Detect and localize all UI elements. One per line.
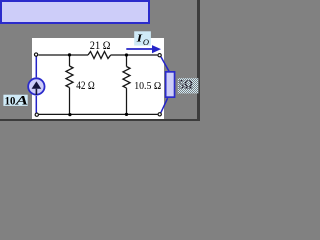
node D bottom-right terminal [158, 113, 161, 116]
node B top-right terminal [158, 54, 161, 57]
wire 10.5ohm branch bottom [126, 88, 128, 114]
junction top of 10.5ohm [125, 53, 128, 56]
svg-text:O: O [143, 37, 149, 47]
resistor R4 5ohm box [166, 72, 175, 97]
wire left branch lower (blue) [35, 96, 37, 113]
label Io highlight box [134, 31, 151, 45]
node A top-left terminal [34, 53, 37, 56]
svg-text:10: 10 [5, 94, 16, 108]
label 5ohm highlight box (dithered) [178, 78, 199, 93]
wire 10.5ohm branch top [126, 55, 128, 67]
wire 42ohm branch bottom [69, 88, 71, 115]
resistor R3 10.5ohm zigzag [123, 67, 130, 89]
wire right diagonal bottom (blue) [161, 98, 168, 113]
svg-text:21 Ω: 21 Ω [90, 38, 111, 52]
svg-text:42 Ω: 42 Ω [76, 80, 94, 92]
junction bottom of 10.5ohm [125, 113, 128, 116]
current Io arrow (blue) [126, 48, 152, 50]
current source arrow [32, 81, 42, 88]
label 5ohm dither overlay [178, 78, 199, 93]
current source I1 10A circle [28, 78, 44, 94]
resistor R2 42ohm zigzag [66, 66, 73, 88]
window shadow border bottom [0, 119, 200, 121]
svg-text:10.5 Ω: 10.5 Ω [134, 80, 161, 92]
wire top right segment [111, 54, 158, 56]
wire right diagonal top (blue) [161, 57, 169, 72]
wire 42ohm branch top [69, 55, 71, 66]
junction bottom of 42ohm [68, 113, 71, 116]
current source arrow stem [35, 89, 37, 95]
wire bottom segment [39, 113, 158, 115]
title banner box [0, 0, 150, 24]
svg-text:A: A [14, 93, 28, 108]
label 10A highlight box [3, 95, 27, 106]
wire top left segment [38, 54, 88, 56]
node C bottom-left terminal [35, 113, 38, 116]
wire left branch upper (blue) [35, 57, 37, 78]
window shadow border right [197, 0, 200, 121]
resistor R1 21ohm zigzag [88, 52, 111, 59]
schematic white canvas [32, 38, 164, 119]
junction top of 42ohm [68, 53, 71, 56]
